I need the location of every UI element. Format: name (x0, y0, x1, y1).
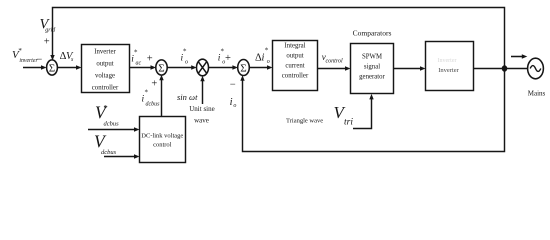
label Vtri (334, 103, 354, 127)
svg-text:output: output (96, 61, 113, 68)
label i*ac (131, 49, 141, 67)
svg-text:+: + (225, 53, 231, 64)
svg-text:controller: controller (282, 73, 309, 80)
svg-text:generator: generator (359, 74, 385, 81)
label unit sine wave (189, 105, 214, 125)
svg-text:i: i (230, 97, 233, 108)
label delta i*o (255, 47, 270, 66)
svg-text:grid: grid (45, 27, 56, 33)
svg-text:control: control (326, 58, 343, 64)
svg-text:ac: ac (136, 60, 142, 66)
svg-text:wave: wave (194, 117, 209, 125)
label Vdcbus (94, 131, 117, 156)
wire inverter to mains (474, 68, 528, 70)
svg-text:Mains: Mains (528, 90, 546, 98)
wire dc-link control to S2 (159, 75, 163, 117)
block inverter output voltage controller (82, 45, 130, 93)
svg-text:Inverter: Inverter (438, 67, 459, 74)
wire V*inverter into S1 (23, 65, 47, 69)
svg-text:SPWM: SPWM (362, 54, 382, 61)
svg-text:controller: controller (92, 85, 119, 92)
svg-text:−: − (230, 80, 236, 91)
svg-text:o: o (267, 59, 270, 65)
svg-text:dcbus: dcbus (146, 102, 161, 108)
multiplier node X (197, 59, 209, 76)
label Vgrid (40, 17, 57, 34)
svg-text:DC-link voltage: DC-link voltage (141, 133, 183, 140)
svg-text:dcbus: dcbus (104, 121, 120, 128)
svg-text:Σ: Σ (240, 62, 246, 74)
svg-text:+: + (151, 78, 157, 89)
svg-text:*: * (221, 48, 225, 56)
label i*dcbus (142, 89, 161, 108)
svg-text:voltage: voltage (95, 73, 115, 80)
svg-text:Σ: Σ (49, 62, 55, 74)
label i*o before S3 (218, 48, 226, 66)
block integral output current controller (273, 41, 318, 91)
svg-text:current: current (285, 63, 304, 70)
label delta Vs (60, 51, 74, 63)
svg-text:Comparators: Comparators (353, 29, 392, 38)
summing junction S1 (47, 60, 58, 75)
label V*dcbus (95, 103, 119, 128)
svg-text:*: * (265, 47, 269, 55)
mains ac source (528, 58, 544, 79)
junction node (502, 65, 508, 71)
wire unit sine wave into multiplier (200, 76, 204, 104)
svg-text:Integral: Integral (284, 43, 305, 50)
wire SPWM to inverter (394, 66, 426, 70)
wire voltage controller to S2 (130, 65, 157, 69)
svg-text:*: * (104, 104, 108, 113)
svg-text:Unit sine: Unit sine (189, 105, 214, 113)
svg-text:o: o (233, 103, 236, 109)
wire Vdcbus into dc-link control (104, 154, 140, 158)
label V*inverter (12, 47, 38, 64)
svg-text:Σ: Σ (158, 62, 164, 74)
wire S1 to voltage controller (57, 65, 81, 69)
wire S3 to current controller (249, 65, 272, 69)
node Vgrid feedback top wire (53, 8, 505, 69)
arrowhead into summing junction S1 top (50, 55, 54, 61)
arrow output current direction (511, 54, 527, 58)
svg-text:−: − (36, 55, 42, 66)
label vcontrol (322, 52, 343, 64)
svg-text:o: o (185, 59, 188, 65)
label io feedback current (230, 97, 237, 109)
svg-text:signal: signal (364, 64, 380, 71)
block inverter (426, 42, 474, 91)
svg-text:Inverter: Inverter (438, 58, 457, 64)
wire output feedback bottom (240, 69, 504, 152)
svg-text:control: control (153, 142, 172, 149)
summing junction S3 (238, 60, 250, 76)
svg-text:+: + (44, 36, 50, 47)
wire current controller to SPWM (318, 66, 351, 70)
svg-text:+: + (147, 53, 153, 64)
svg-text:*: * (183, 48, 187, 56)
svg-text:*: * (134, 49, 138, 57)
wire Vtri into SPWM (353, 94, 374, 129)
block SPWM signal generator (351, 44, 394, 94)
block dc-link voltage control (140, 117, 186, 163)
svg-text:tri: tri (344, 118, 353, 128)
svg-text:*: * (18, 47, 22, 55)
wire V*dcbus into dc-link control (88, 127, 140, 131)
svg-text:output: output (286, 53, 303, 60)
svg-text:sin ωt: sin ωt (177, 92, 198, 102)
label i*o after S2 (181, 48, 189, 66)
svg-text:Triangle wave: Triangle wave (286, 117, 323, 124)
svg-text:Inverter: Inverter (94, 49, 116, 56)
svg-text:*: * (145, 89, 149, 97)
wire S2 to multiplier (167, 65, 197, 69)
svg-text:dcbus: dcbus (101, 149, 117, 156)
wire multiplier to S3 (208, 65, 238, 69)
summing junction S2 (156, 60, 167, 75)
